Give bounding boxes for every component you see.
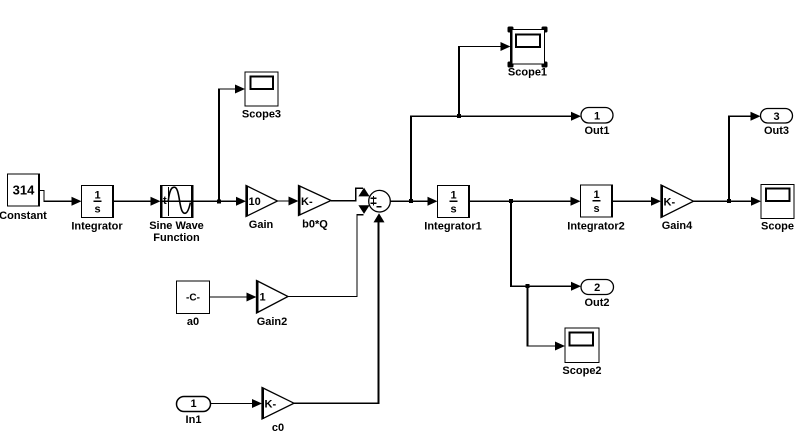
svg-text:Constant: Constant <box>0 210 47 222</box>
svg-text:Integrator: Integrator <box>71 221 123 233</box>
svg-text:Gain4: Gain4 <box>662 220 693 232</box>
wire Sine Wave Function to Gain <box>193 197 246 206</box>
svg-text:3: 3 <box>773 111 779 123</box>
svg-text:Gain2: Gain2 <box>257 316 288 328</box>
svg-text:In1: In1 <box>186 414 202 426</box>
svg-text:K-: K- <box>301 196 313 208</box>
svg-text:1: 1 <box>260 292 266 304</box>
svg-text:a0: a0 <box>187 316 199 328</box>
svg-text:Gain: Gain <box>249 219 274 231</box>
wire branch up to Out1 level <box>410 112 581 202</box>
wire In1 to c0 <box>211 399 263 408</box>
svg-text:K-: K- <box>265 399 277 411</box>
svg-text:2: 2 <box>594 282 600 294</box>
scope block Scope3 <box>242 72 281 121</box>
svg-text:1: 1 <box>94 190 100 202</box>
wire branch up to Scope1 <box>458 42 511 116</box>
gain block Gain4 "K-" <box>661 185 694 232</box>
constant block a0 "-C-" <box>177 281 210 328</box>
svg-text:K-: K- <box>664 197 676 209</box>
node junction to Scope3 branch <box>217 199 221 203</box>
wire branch down to Scope2 <box>527 286 566 350</box>
wire Gain4 to Scope <box>694 197 762 206</box>
gain block c0 "K-" <box>262 388 294 435</box>
wire Gain to b0*Q <box>278 197 299 206</box>
node junction at Out2/Scope2 branch <box>526 284 530 288</box>
svg-text:c0: c0 <box>272 422 284 434</box>
svg-text:1: 1 <box>594 111 600 123</box>
integrator block Integrator2 "1/s" <box>567 185 624 233</box>
svg-text:Scope: Scope <box>761 221 794 233</box>
svg-text:s: s <box>593 203 599 215</box>
node junction Gain4 output branch <box>727 199 731 203</box>
svg-text:1: 1 <box>450 190 456 202</box>
scope block Scope <box>761 185 794 233</box>
wire Integrator2 to Gain4 <box>613 197 662 206</box>
svg-text:10: 10 <box>249 196 261 208</box>
svg-text:s: s <box>450 204 456 216</box>
svg-text:Out3: Out3 <box>764 125 789 137</box>
svg-text:1: 1 <box>593 189 599 201</box>
svg-text:Integrator1: Integrator1 <box>424 221 481 233</box>
gain block b0*Q "K-" <box>299 186 332 231</box>
wire Constant to Integrator <box>40 190 82 205</box>
svg-text:Scope2: Scope2 <box>562 365 601 377</box>
wire branch up to Scope3 <box>218 85 245 202</box>
scope block Scope1 (selected, with handles) <box>508 27 548 79</box>
wire a0 to Gain2 <box>210 293 257 302</box>
wire Gain2 to Sum plus input <box>288 205 370 296</box>
svg-text:Scope1: Scope1 <box>508 67 547 79</box>
svg-text:-C-: -C- <box>186 293 200 304</box>
svg-text:Out1: Out1 <box>584 125 609 137</box>
svg-text:s: s <box>94 204 100 216</box>
integrator block Integrator1 "1/s" <box>424 186 481 233</box>
gain block Gain "10" <box>246 186 278 232</box>
constant block Constant "314" <box>0 174 47 222</box>
svg-text:Scope3: Scope3 <box>242 109 281 121</box>
sine wave source block Sine Wave Function <box>149 186 204 245</box>
node junction at Scope1 branch <box>457 114 461 118</box>
svg-text:Out2: Out2 <box>584 297 609 309</box>
wire c0 to Sum minus input <box>294 213 385 404</box>
node junction Sum output branch <box>409 199 413 203</box>
wire branch down to Out2 <box>510 201 581 291</box>
inport In1 "1" <box>177 397 211 427</box>
svg-text:Sine Wave: Sine Wave <box>149 220 204 232</box>
svg-text:Integrator2: Integrator2 <box>567 221 624 233</box>
sum block (round, ++-) <box>369 190 391 212</box>
svg-text:314: 314 <box>13 183 35 198</box>
integrator block Integrator "1/s" <box>71 186 123 233</box>
scope block Scope2 <box>562 328 601 377</box>
wire Integrator to Sine Wave Function <box>114 197 161 206</box>
wire b0*Q to Sum plus input <box>331 188 370 201</box>
outport Out2 "2" <box>581 280 614 310</box>
svg-text:1: 1 <box>190 398 196 410</box>
outport Out1 "1" <box>581 108 613 138</box>
wire branch up to Out3 <box>728 112 761 201</box>
svg-text:Function: Function <box>153 232 200 244</box>
svg-text:b0*Q: b0*Q <box>302 219 328 231</box>
wire Integrator1 to Integrator2 <box>470 197 581 206</box>
wire Sum to Integrator1 <box>390 197 437 206</box>
gain block Gain2 "1" <box>257 281 289 329</box>
outport Out3 "3" <box>761 109 793 138</box>
node junction Integrator1 output branch <box>509 199 513 203</box>
